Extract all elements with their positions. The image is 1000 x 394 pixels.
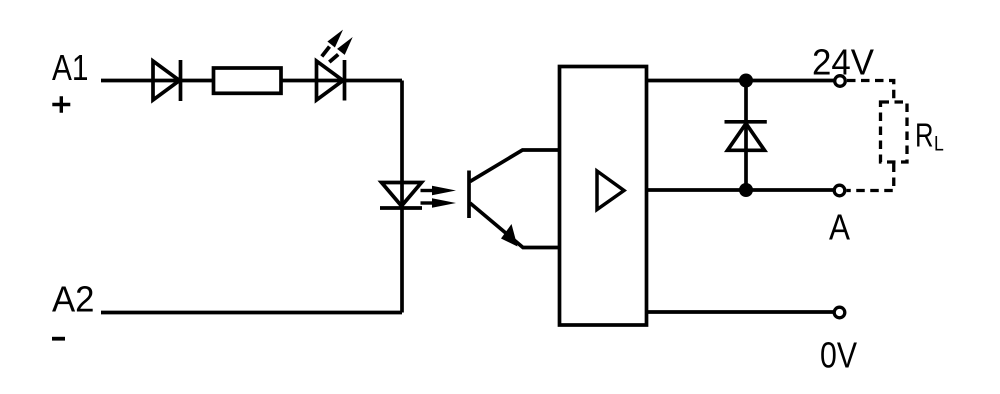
wire down through opto LED to A2 rail [400,81,404,313]
LED D2 light arrows [322,30,353,63]
wire 0V rail [647,310,834,314]
phototransistor Q1 collector [470,150,560,182]
polarity + [52,96,70,112]
terminal circle A [834,185,845,196]
phototransistor Q1 base line [467,171,471,219]
dashed wire 24V to RL [847,81,894,101]
terminal circle 24V [835,76,846,87]
terminal circle 0V [834,307,845,318]
svg-text:A2: A2 [52,279,95,320]
optocoupler LED [380,183,422,209]
wire resistor to corner (through D2) [281,79,402,83]
wire A1 to resistor (through D1) [101,79,214,83]
dashed wire RL to A [847,164,894,191]
svg-text:R: R [915,117,934,154]
wire A2 rail [101,311,402,315]
wire A rail [647,188,834,192]
opto light arrows [421,186,457,208]
driver block U1 [560,67,647,326]
diode D1 [153,60,181,101]
svg-text:A1: A1 [52,47,89,88]
freewheeling diode D3 wire (through) [744,81,748,191]
load resistor RL (dashed) [881,102,908,162]
wire 24V rail [647,79,834,83]
svg-text:24V: 24V [812,42,874,83]
svg-text:0V: 0V [820,335,857,376]
phototransistor Q1 emitter arrowhead [501,224,518,247]
junction dot A [739,183,753,197]
svg-text:A: A [829,206,850,247]
junction dot 24V [739,74,753,88]
LED D2 [317,60,345,101]
buffer symbol [597,171,624,210]
svg-text:L: L [934,132,944,155]
phototransistor Q1 emitter [470,203,560,248]
polarity - [52,337,65,341]
resistor R1 [214,68,282,93]
freewheeling diode D3 [725,122,767,151]
